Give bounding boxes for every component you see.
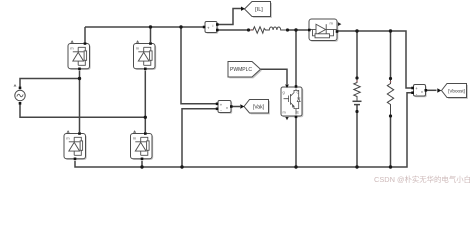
node Vak minus junction — [180, 165, 183, 168]
wire AC source top — [20, 79, 80, 88]
svg-text:PWMPLC: PWMPLC — [230, 67, 252, 73]
svg-text:[Vboost]: [Vboost] — [448, 88, 465, 93]
wire bottom bus — [75, 93, 413, 167]
wire current meas i signal to IL tag — [217, 9, 242, 25]
wire D5 output bus — [337, 31, 413, 88]
node D2 cathode junction — [149, 25, 152, 28]
wire right leg D2 anode to D4 cathode — [144, 71, 146, 133]
node boost switch junction — [294, 28, 297, 31]
goto tag Vboost — [437, 84, 468, 99]
resistor R2 load — [387, 79, 393, 117]
wire Vak minus sense — [182, 109, 217, 167]
node Vak plus junction — [179, 25, 182, 28]
capacitor C1 branch (series RC) resistor part — [354, 78, 360, 101]
current measurement block — [203, 22, 219, 34]
from tag PWMPLC — [228, 62, 262, 79]
watermark — [374, 174, 471, 185]
wire load top — [390, 31, 392, 78]
svg-text:+: + — [207, 26, 210, 31]
wire top bus — [85, 26, 205, 28]
node AC to right leg junction — [144, 116, 147, 119]
svg-text:[Vak]: [Vak] — [253, 104, 265, 110]
node AC to left leg junction — [78, 77, 81, 80]
wire Vak plus sense — [181, 27, 217, 104]
svg-text:[IL]: [IL] — [255, 7, 263, 13]
diode D2 — [134, 40, 157, 70]
svg-text:v: v — [421, 89, 423, 94]
diode D3 — [64, 130, 87, 160]
svg-text:g: g — [283, 91, 285, 95]
node load top junction — [389, 29, 392, 32]
voltage measurement Vak — [216, 101, 233, 114]
wire D1 cathode to bus — [84, 27, 86, 42]
wire RL branch to diode D5 — [288, 29, 310, 31]
wire D4 anode to bus — [141, 161, 143, 167]
wire IGBT emitter to bus — [295, 117, 297, 168]
voltage measurement Vboost — [411, 85, 427, 98]
wire D2 cathode to bus — [150, 27, 152, 42]
diode D5 (boost diode) — [308, 19, 341, 42]
wire load bottom — [390, 116, 392, 167]
wire AC source bottom — [20, 104, 145, 118]
node load ports — [389, 77, 392, 80]
goto tag IL — [241, 2, 272, 18]
node RL ports — [247, 28, 250, 31]
wire PWMPLC gate signal — [261, 69, 288, 84]
node RC branch top junction — [355, 29, 358, 32]
node C branch ports — [355, 76, 358, 79]
node IGBT emitter junction — [294, 165, 297, 168]
node D5 output junction — [335, 29, 338, 32]
svg-text:i: i — [213, 23, 214, 28]
capacitor C1 plates — [353, 101, 362, 111]
node RC branch bottom junction — [355, 165, 358, 168]
node load bottom junction — [389, 165, 392, 168]
wire Vboost meas output — [426, 89, 437, 91]
node D4 anode junction — [140, 165, 143, 168]
svg-text:m: m — [283, 111, 286, 115]
diode D4 — [131, 130, 154, 160]
wire node to IGBT collector — [295, 30, 297, 86]
wire RC branch bottom — [356, 112, 358, 168]
wire RC branch top — [356, 31, 358, 78]
wire Vak meas output — [231, 106, 240, 108]
AC voltage source V1 — [14, 84, 26, 105]
wire left leg D1 anode to D3 cathode — [79, 71, 81, 133]
resistor R1 (inline series RL) — [249, 27, 267, 33]
inductor L1 — [267, 27, 288, 30]
diode D1 — [68, 40, 91, 70]
svg-text:v: v — [226, 105, 228, 110]
goto tag Vak — [240, 100, 270, 115]
transistor Q1 (IGBT/Diode block) — [281, 85, 303, 121]
wire current meas to RL branch — [217, 29, 249, 31]
